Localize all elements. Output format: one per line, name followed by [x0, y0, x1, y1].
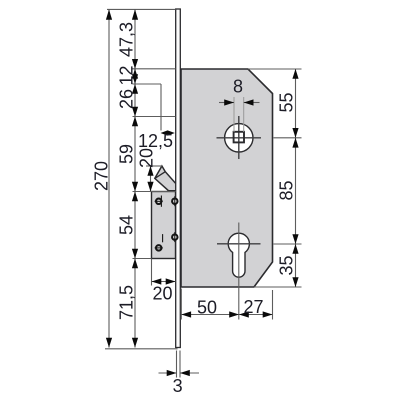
dash mark [162, 234, 164, 242]
dimension 12,5 diamond [161, 130, 175, 135]
spindle crosshair [217, 137, 262, 139]
extension line faceplate left bottom [176, 351, 178, 378]
svg-text:8: 8 [233, 77, 243, 97]
extension line body left bottom [180, 289, 182, 320]
faceplate [176, 9, 181, 348]
extension line top y10 [107, 8, 176, 10]
dimension 3 faceplate [159, 372, 177, 374]
extension line y116.5 [133, 116, 176, 118]
arrows 12 [132, 69, 138, 79]
screw S3 middle-right [172, 234, 177, 239]
svg-text:20: 20 [152, 284, 172, 304]
svg-text:35: 35 [277, 255, 297, 275]
extension line body right bottom [272, 290, 274, 320]
svg-text:27: 27 [243, 297, 263, 317]
extension line case left [151, 259, 153, 286]
extension line bottom y348.8 [105, 348, 178, 350]
dimension 20 case width [152, 281, 176, 283]
extension line y191.5 [133, 191, 176, 193]
dimension line 270 [108, 9, 110, 347]
arrows 26 [132, 84, 138, 94]
extension line top right y69 [248, 68, 302, 70]
dimension line column 47,3/12/26/59/54/71,5 [134, 9, 136, 347]
spindle square 8mm [234, 132, 244, 143]
arrows 47,3 [132, 9, 138, 19]
arrows 59 [132, 117, 138, 127]
lock body [181, 69, 273, 287]
arrows 54 [132, 192, 138, 202]
svg-text:12,5: 12,5 [138, 131, 173, 151]
screw S1 top-left [156, 199, 161, 204]
svg-text:26: 26 [116, 89, 136, 109]
extension line y258.5 [133, 258, 152, 260]
extension line y69 [133, 68, 176, 70]
dimension line 55/85/35 [295, 69, 297, 287]
svg-text:3: 3 [173, 376, 183, 396]
svg-text:59: 59 [116, 144, 136, 164]
extension line square left [233, 97, 235, 132]
extension line y84 [133, 83, 162, 85]
arrows 35 [292, 244, 298, 254]
svg-text:12: 12 [116, 65, 136, 85]
dimension line 50/27 [181, 314, 272, 316]
dimension line 20 vertical latch [150, 166, 152, 192]
extension line square right [243, 97, 245, 132]
svg-text:54: 54 [116, 215, 136, 235]
extension line cylinder center right [274, 243, 302, 245]
cylinder crosshair [217, 243, 261, 245]
svg-text:71,5: 71,5 [116, 285, 136, 320]
svg-text:55: 55 [277, 92, 297, 112]
extension line faceplate right bottom [179, 351, 181, 378]
follower cutout line vertical [160, 84, 162, 131]
svg-text:270: 270 [92, 161, 112, 191]
screw S4 bottom-left [156, 245, 161, 250]
svg-text:85: 85 [277, 180, 297, 200]
arrows 55 [292, 69, 298, 79]
extension line spindle center right [274, 137, 302, 139]
extension line y166 [146, 165, 162, 167]
latch bolt [155, 166, 176, 191]
spindle hole circle [225, 124, 253, 152]
lock case [152, 192, 176, 259]
svg-text:47,3: 47,3 [116, 22, 136, 57]
euro cylinder hole [228, 233, 249, 277]
latch bevel crease [155, 172, 166, 179]
svg-text:50: 50 [197, 298, 217, 318]
arrows 85 [292, 138, 298, 148]
screw S2 top-right [172, 199, 177, 204]
arrows 71,5 [132, 259, 138, 269]
dimension 8 square [219, 102, 234, 104]
extension line body bottom right [254, 286, 302, 288]
